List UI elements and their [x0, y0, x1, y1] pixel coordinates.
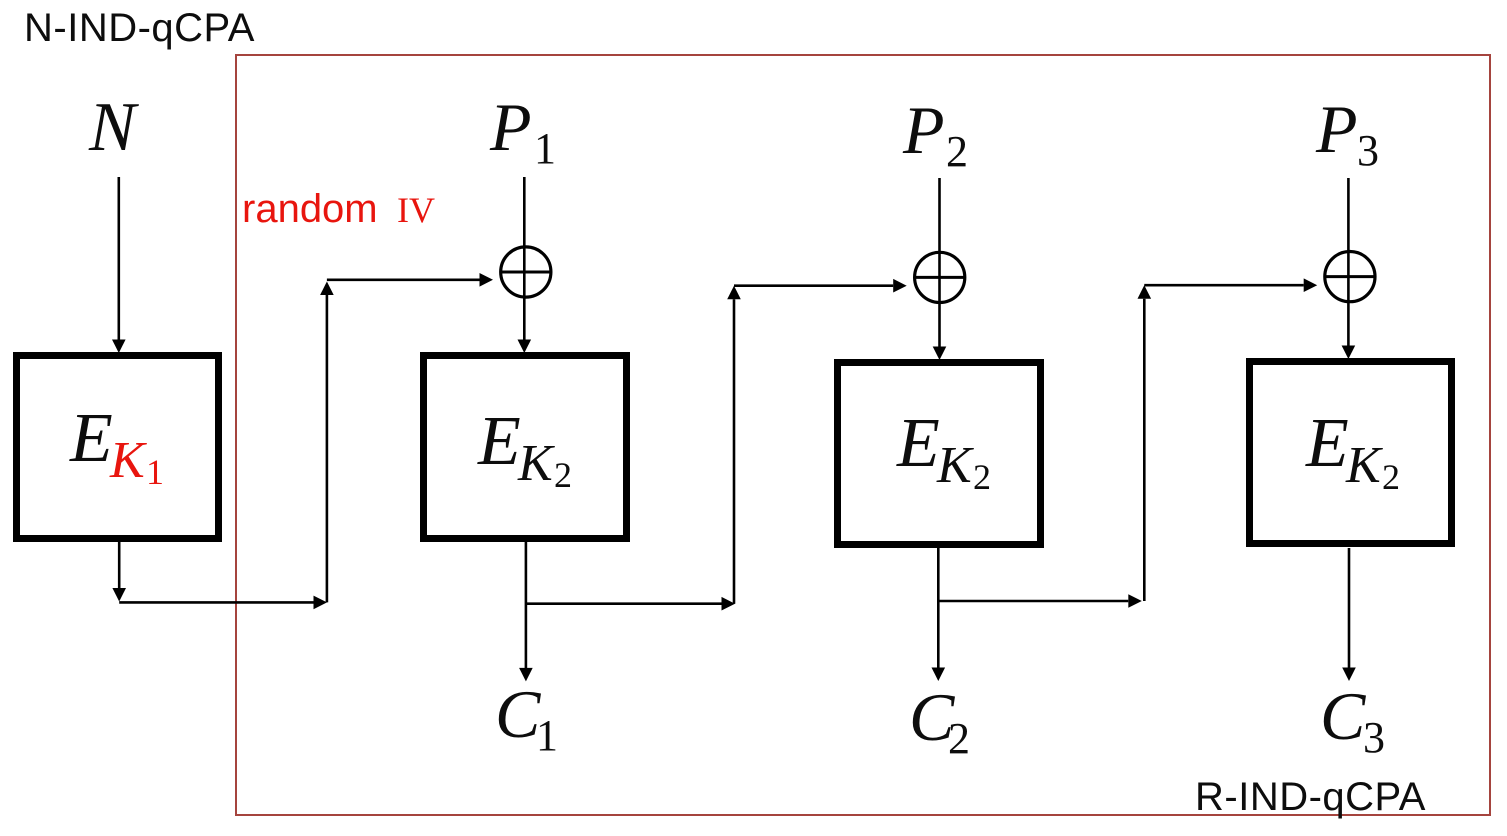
svg-text:IV: IV — [397, 190, 435, 230]
svg-text:P: P — [1315, 91, 1358, 167]
svg-text:N-IND-qCPA: N-IND-qCPA — [24, 6, 255, 50]
svg-text:3: 3 — [1357, 126, 1379, 175]
xor X3 — [1324, 252, 1376, 302]
wire E_K2 second branch horizontal — [938, 594, 1142, 608]
svg-text:K: K — [936, 437, 974, 494]
block E_K2 (second) — [838, 363, 1041, 545]
wire E_K2 first output down to C1 — [519, 542, 533, 681]
node P2 — [902, 92, 968, 176]
svg-text:1: 1 — [536, 711, 558, 760]
svg-text:E: E — [1305, 405, 1349, 482]
svg-text:P: P — [489, 89, 532, 165]
svg-text:C: C — [1320, 678, 1366, 754]
svg-text:E: E — [896, 405, 940, 482]
block E_K2 (first) — [424, 356, 627, 539]
wire P2 through X2 to E_K2 second — [933, 178, 947, 360]
wire E_K1 output down — [112, 542, 126, 602]
node N-IND-qCPA label — [24, 6, 255, 50]
wire E_K2 third output down to C3 — [1342, 548, 1356, 681]
svg-text:2: 2 — [554, 455, 572, 495]
svg-text:1: 1 — [534, 124, 556, 173]
svg-text:C: C — [495, 676, 541, 752]
wire E_K2 second output down to C2 — [932, 548, 946, 681]
wire N to E_K1 — [112, 177, 126, 353]
svg-text:N: N — [88, 89, 139, 166]
random IV label — [242, 187, 435, 231]
svg-text:random: random — [242, 187, 378, 231]
wire riser to X1 — [320, 282, 334, 603]
wire into X2 — [734, 279, 907, 293]
svg-text:K: K — [109, 432, 147, 489]
wire riser to X3 — [1138, 285, 1152, 601]
svg-text:K: K — [1345, 437, 1383, 494]
node P1 — [489, 89, 556, 173]
svg-text:2: 2 — [948, 714, 970, 763]
node R-IND-qCPA label — [1195, 775, 1426, 819]
wire into X3 — [1144, 278, 1317, 292]
xor X2 — [914, 252, 966, 302]
wire E_K2 first branch horizontal — [526, 597, 735, 611]
svg-text:R-IND-qCPA: R-IND-qCPA — [1195, 775, 1426, 819]
block E_K2 (third) — [1250, 362, 1452, 544]
wire P3 through X3 to E_K2 third — [1342, 178, 1356, 359]
node N — [88, 89, 139, 166]
svg-text:3: 3 — [1363, 713, 1385, 762]
svg-text:E: E — [69, 400, 113, 477]
node C3 — [1320, 678, 1385, 762]
R-IND-qCPA boundary box — [236, 55, 1490, 815]
node P3 — [1315, 91, 1379, 175]
wire riser to X2 — [727, 286, 741, 604]
xor X1 — [500, 247, 552, 297]
wire into X1 — [327, 273, 493, 287]
node C2 — [909, 679, 970, 763]
svg-text:2: 2 — [973, 457, 991, 497]
svg-text:E: E — [477, 403, 521, 480]
wire P1 through X1 to E_K2 first — [518, 177, 532, 353]
svg-text:2: 2 — [1382, 457, 1400, 497]
wire E_K1 output horizontal — [119, 596, 327, 610]
svg-text:2: 2 — [946, 127, 968, 176]
block E_K1 — [17, 356, 219, 539]
svg-text:P: P — [902, 92, 945, 168]
node C1 — [495, 676, 558, 760]
svg-text:1: 1 — [146, 452, 164, 492]
svg-text:K: K — [517, 435, 555, 492]
